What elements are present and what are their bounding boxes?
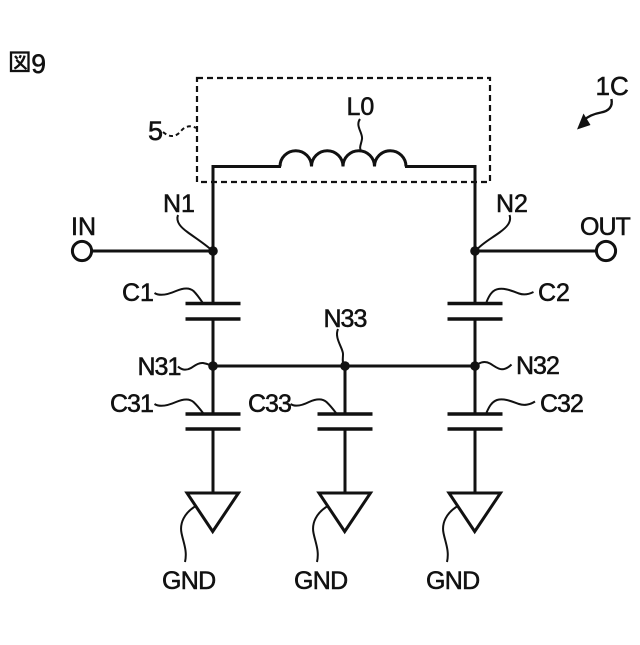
svg-text:1C: 1C: [596, 71, 629, 101]
leader for C31: [155, 399, 204, 413]
svg-text:N2: N2: [496, 190, 528, 218]
svg-text:9: 9: [31, 49, 46, 79]
wire: N31 down to C31: [212, 366, 215, 413]
terminal OUT: [596, 241, 615, 260]
svg-text:5: 5: [148, 116, 163, 146]
leader for GND 2: [313, 507, 327, 563]
leader for GND 3: [443, 507, 457, 563]
leader arrow for 1C: [584, 99, 612, 120]
ground symbol 1: [187, 493, 239, 532]
node N33: [340, 361, 350, 371]
capacitor C31: [186, 412, 241, 416]
leader for C32: [487, 399, 536, 412]
leader for C33: [291, 399, 337, 413]
leader for N31: [178, 363, 210, 370]
svg-text:GND: GND: [294, 567, 347, 595]
wire: top right horizontal: [405, 165, 477, 168]
wire: C33 to ground 2: [344, 431, 347, 493]
svg-text:C2: C2: [538, 279, 570, 307]
wire: top left horizontal: [212, 165, 282, 168]
leader for C1: [155, 288, 204, 303]
leader for GND 1: [181, 507, 195, 563]
svg-text:C33: C33: [248, 390, 291, 418]
wire: C2 to N32: [474, 321, 477, 368]
svg-text:L0: L0: [347, 93, 375, 121]
node N32: [470, 361, 480, 371]
svg-text:GND: GND: [162, 567, 215, 595]
capacitor C32: [448, 412, 503, 416]
leader for C2: [487, 289, 534, 302]
wire: middle horizontal N31-N32: [213, 365, 475, 368]
dashed box (phase shifter 5): [197, 78, 490, 182]
capacitor C1: [186, 302, 241, 306]
svg-text:GND: GND: [426, 567, 479, 595]
wire: right vertical (N2 branch): [474, 165, 477, 302]
wire: C32 to ground 3: [474, 431, 477, 493]
svg-text:C32: C32: [540, 390, 583, 418]
leader for L0: [358, 119, 362, 151]
figure label 図9: [11, 53, 29, 72]
wire: N32 down to C32: [474, 366, 477, 413]
svg-text:N1: N1: [163, 190, 195, 218]
node N1: [208, 246, 218, 256]
node N2: [470, 246, 480, 256]
leader for N1: [177, 215, 211, 250]
capacitor C2: [448, 302, 503, 306]
capacitor C33: [318, 412, 373, 416]
svg-text:OUT: OUT: [580, 213, 631, 241]
svg-text:N31: N31: [138, 353, 181, 381]
wire: C1 to N31: [212, 321, 215, 368]
leader for N33: [337, 329, 344, 364]
wire: left vertical (N1 branch): [212, 165, 215, 302]
leader for 5 (dashed wavy): [163, 126, 196, 136]
leader for N32: [479, 362, 512, 369]
wire: N33 down to C33: [344, 366, 347, 413]
ground symbol 2: [319, 493, 371, 532]
wire: IN to N1: [92, 250, 213, 253]
terminal IN: [72, 241, 91, 260]
svg-text:N33: N33: [324, 305, 367, 333]
ground symbol 3: [449, 493, 501, 532]
inductor L0: [280, 151, 406, 167]
svg-text:N32: N32: [516, 352, 559, 380]
svg-text:C31: C31: [110, 390, 153, 418]
leader for N2: [477, 215, 511, 250]
node N31: [208, 361, 218, 371]
svg-text:C1: C1: [122, 279, 154, 307]
wire: C31 to ground 1: [212, 431, 215, 493]
svg-text:IN: IN: [71, 213, 96, 241]
wire: N2 to OUT: [475, 250, 595, 253]
